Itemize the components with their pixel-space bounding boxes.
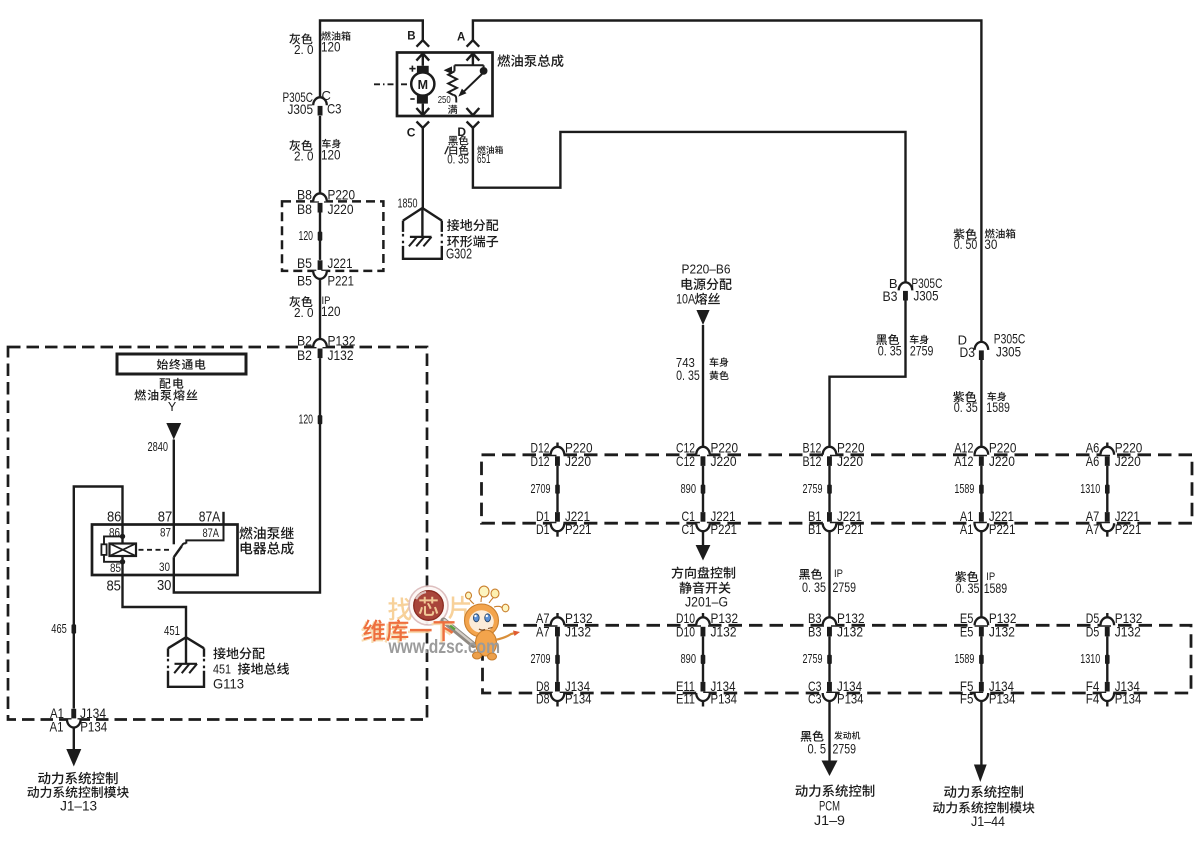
svg-text:87: 87 <box>158 509 173 525</box>
wire W6 connector P221 down to connector B2 P132 <box>319 279 321 339</box>
svg-text:P134: P134 <box>565 691 592 707</box>
ground G302 接地分配 环形端子 <box>398 196 499 262</box>
wire W15 A1 P221 down to E5 P132 <box>980 531 982 617</box>
connector column C12 P220/J220 - C1 J221/P221 <box>676 439 738 537</box>
fuse label 配电 燃油泵熔丝 Y <box>134 378 197 414</box>
wire W14 B1 P221 down to B3 P132 <box>828 531 830 617</box>
label box 始终通电 <box>117 354 246 374</box>
svg-text:M: M <box>418 78 428 92</box>
svg-text:30: 30 <box>984 237 997 252</box>
svg-text:2709: 2709 <box>531 652 551 666</box>
svg-text:J201–G: J201–G <box>685 595 728 610</box>
pump pin A (fork, label, entry arrow) <box>457 31 479 65</box>
svg-text:A1: A1 <box>960 521 974 537</box>
svg-text:J305: J305 <box>288 101 314 117</box>
dashed box P132/J132 - J134/P134 <box>483 625 1192 693</box>
svg-text:P221: P221 <box>837 521 864 537</box>
svg-text:2. 0: 2. 0 <box>294 42 314 57</box>
svg-text:J220: J220 <box>711 453 737 469</box>
svg-text:Y: Y <box>168 400 177 414</box>
svg-text:0. 35: 0. 35 <box>954 400 978 415</box>
svg-text:250: 250 <box>438 94 451 106</box>
arrow to PCM J1-13 (left) <box>27 728 128 814</box>
svg-text:E5: E5 <box>960 623 974 639</box>
wire W16 C3 P134 down to PCM arrow <box>828 701 830 761</box>
svg-text:2759: 2759 <box>833 742 857 757</box>
svg-text:J132: J132 <box>328 347 354 363</box>
connector C3 P305C/J305 (left column) <box>283 88 342 117</box>
fuse output arrow (circuit 2840) <box>148 423 182 454</box>
svg-text:B12: B12 <box>803 453 822 469</box>
svg-text:P134: P134 <box>989 691 1016 707</box>
svg-text:J305: J305 <box>914 287 939 303</box>
wire W17 F5 P134 down to PCM arrow <box>980 701 982 765</box>
svg-text:1850: 1850 <box>398 196 418 210</box>
label 灰色 2.0 车身 120 (wire W1 lower) <box>289 139 341 164</box>
svg-text:IP: IP <box>834 568 843 580</box>
svg-text:C12: C12 <box>676 453 695 469</box>
svg-text:F4: F4 <box>1086 691 1100 707</box>
svg-text:B3: B3 <box>808 623 822 639</box>
svg-text:J1–44: J1–44 <box>971 814 1005 829</box>
svg-text:P221: P221 <box>1115 521 1142 537</box>
svg-text:465: 465 <box>51 622 67 636</box>
svg-text:D1: D1 <box>536 521 550 537</box>
pump pin C (exit arrow, fork, label) <box>407 104 429 140</box>
arrow to PCM J1-9 <box>795 761 874 829</box>
svg-text:2840: 2840 <box>148 440 169 454</box>
svg-text:651: 651 <box>477 152 491 166</box>
connector B5 J221/P221 (left column) <box>297 255 354 288</box>
svg-text:451: 451 <box>213 662 231 677</box>
svg-text:B3: B3 <box>883 288 898 304</box>
svg-text:J1–9: J1–9 <box>814 813 845 828</box>
label 黑色 0.35 车身 2759 (wire W12) <box>876 334 933 358</box>
svg-text:B5: B5 <box>297 255 312 271</box>
svg-text:451: 451 <box>164 624 180 638</box>
arrow to steering wheel controls 方向盘控制 静音开关 J201-G <box>672 531 736 610</box>
svg-text:D8: D8 <box>536 691 550 707</box>
relay pin labels inner 86 87 87A 85 30 <box>109 527 219 575</box>
fuel pump relay box 燃油泵继电器总成 <box>92 525 294 576</box>
svg-text:J132: J132 <box>989 623 1015 639</box>
wire W12 connector J305 jog down-left to connector B12 P220 <box>830 301 906 447</box>
svg-text:B5: B5 <box>297 272 312 288</box>
svg-text:P221: P221 <box>565 521 592 537</box>
svg-text:J220: J220 <box>565 453 591 469</box>
relay coil with parallel resistor <box>101 525 136 576</box>
svg-text:1310: 1310 <box>1080 482 1100 496</box>
relay switch (30 common, 87 NO, 87A NC) <box>139 525 224 576</box>
svg-text:2. 0: 2. 0 <box>294 305 314 320</box>
wire W4 pump pin D staircase to connector B P305C <box>473 128 906 283</box>
svg-text:0. 35: 0. 35 <box>447 151 469 166</box>
svg-text:J220: J220 <box>837 453 863 469</box>
connector column B12 P220/J220 - B1 J221/P221 <box>803 439 865 537</box>
wire W11 fuse 743 down to connector C12 P220 <box>702 325 704 447</box>
svg-text:B8: B8 <box>297 201 312 217</box>
svg-text:C: C <box>407 125 416 139</box>
wire W9 relay pin 86 up-left-down to connector A1 J134 <box>74 487 123 709</box>
svg-text:A12: A12 <box>954 453 973 469</box>
svg-text:0. 5: 0. 5 <box>808 742 827 757</box>
svg-text:2759: 2759 <box>803 482 823 496</box>
svg-text:P134: P134 <box>80 719 107 735</box>
label 黑色 0.35 IP 2759 (wire W14) <box>799 568 856 595</box>
svg-text:B1: B1 <box>808 521 822 537</box>
svg-text:2709: 2709 <box>531 482 551 496</box>
wire W10 relay pin 85 to ground G113 <box>123 575 187 637</box>
svg-text:2759: 2759 <box>803 652 823 666</box>
svg-text:B: B <box>407 31 415 43</box>
svg-text:1589: 1589 <box>954 482 974 496</box>
svg-text:30: 30 <box>157 578 172 594</box>
label 灰色 2.0 IP 120 (wire W6) <box>289 295 340 320</box>
svg-text:86: 86 <box>109 527 120 539</box>
svg-text:10A: 10A <box>676 292 695 307</box>
label 黑色/白色 0.35 燃油箱 651 (wire W4) <box>445 135 503 166</box>
svg-text:0. 50: 0. 50 <box>954 237 978 252</box>
svg-text:120: 120 <box>299 413 314 427</box>
svg-text:J132: J132 <box>837 623 863 639</box>
svg-text:J220: J220 <box>989 453 1015 469</box>
wire W1 from node B2 column to fuel pump pin B (top left) <box>320 21 423 195</box>
svg-text:87A: 87A <box>199 509 221 525</box>
svg-text:D10: D10 <box>676 623 695 639</box>
svg-text:85: 85 <box>110 563 121 575</box>
svg-text:D5: D5 <box>1086 623 1100 639</box>
svg-text:A6: A6 <box>1086 453 1100 469</box>
connector column D12 P220/J220 - D1 J221/P221 <box>531 439 593 537</box>
svg-text:J221: J221 <box>328 255 353 271</box>
connector B2 P132/J132 (on dashed box top edge) <box>297 332 356 363</box>
svg-text:P134: P134 <box>1115 691 1142 707</box>
svg-text:86: 86 <box>107 509 122 525</box>
svg-text:A1: A1 <box>50 719 64 735</box>
svg-text:0. 35: 0. 35 <box>878 343 902 358</box>
svg-text:F5: F5 <box>960 691 974 707</box>
fuel level sender wiper arm (switch) <box>458 67 487 97</box>
connector column D10 P132/J132 - E11 J134/P134 <box>676 610 738 707</box>
svg-text:0. 35: 0. 35 <box>802 580 826 595</box>
svg-text:P221: P221 <box>989 521 1016 537</box>
wire W7 connector J132 down, left to relay pin 30 <box>174 358 320 592</box>
svg-text:1589: 1589 <box>954 652 974 666</box>
svg-text:J132: J132 <box>565 623 591 639</box>
svg-text:2759: 2759 <box>910 343 934 358</box>
svg-text:B2: B2 <box>297 347 312 363</box>
svg-text:P220–B6: P220–B6 <box>682 262 731 277</box>
splice 465 (wire W9) <box>51 622 76 636</box>
label 灰色 2.0 燃油箱 120 (wire W1 upper) <box>289 31 350 57</box>
connector column A6 P220/J220 - A7 J221/P221 <box>1080 439 1142 537</box>
wire W5 inside J220 box <box>319 213 321 260</box>
pump pin B (fork, label, entry arrow) <box>407 31 429 66</box>
svg-text:87A: 87A <box>202 528 219 540</box>
connector column E5 P132/J132 - F5 J134/P134 <box>954 610 1016 707</box>
svg-text:120: 120 <box>321 304 341 319</box>
dashed box around connectors J220/J221 (left) <box>282 201 383 271</box>
connector column D5 P132/J132 - F4 J134/P134 <box>1080 610 1142 707</box>
svg-text:J220: J220 <box>328 201 354 217</box>
svg-text:87: 87 <box>160 528 171 540</box>
svg-text:85: 85 <box>106 579 121 595</box>
svg-text:P221: P221 <box>328 272 355 288</box>
dashed boundary box (left module) <box>8 347 427 720</box>
svg-text:www.dzsc.com: www.dzsc.com <box>388 636 500 658</box>
arrow to PCM J1-44 <box>933 765 1034 829</box>
connector column A7 P132/J132 - D8 J134/P134 <box>531 610 593 707</box>
svg-text:P134: P134 <box>837 691 864 707</box>
fuse P220-B6 电源分配 10A熔丝 <box>676 262 732 325</box>
svg-text:E11: E11 <box>676 691 695 707</box>
label 743 0.35 车身 黄色 (wire W11) <box>676 355 729 383</box>
svg-text:D3: D3 <box>960 344 976 360</box>
svg-text:0. 35: 0. 35 <box>676 368 700 383</box>
fuel pump assembly box 燃油泵总成 <box>397 53 564 117</box>
splice 120 (left column) <box>299 229 323 243</box>
svg-text:J132: J132 <box>711 623 737 639</box>
svg-text:2. 0: 2. 0 <box>294 149 314 164</box>
svg-text:J132: J132 <box>1115 623 1141 639</box>
connector column B3 P132/J132 - C3 J134/P134 <box>803 610 865 707</box>
svg-text:PCM: PCM <box>819 799 840 814</box>
svg-text:J1–13: J1–13 <box>60 798 97 813</box>
svg-text:A7: A7 <box>1086 521 1100 537</box>
dashed box P220/J220 - J221/P221 <box>482 455 1193 523</box>
wire W2 from fuel pump pin A to connector D P305C (top right) <box>473 21 982 342</box>
label 紫色 0.35 车身 1589 (wire W13) <box>953 391 1010 415</box>
svg-text:C1: C1 <box>682 521 696 537</box>
motor M (fuel pump motor with brushes) <box>409 66 434 104</box>
connector B3 P305C/J305 (column 3) <box>883 275 943 304</box>
float arm dash-dot line <box>374 83 411 85</box>
svg-text:0. 35: 0. 35 <box>956 581 980 596</box>
svg-text:C3: C3 <box>808 691 822 707</box>
connector B8 P220/J220 (left column) <box>297 186 355 216</box>
svg-text:A: A <box>457 31 465 43</box>
svg-text:890: 890 <box>681 652 697 666</box>
svg-text:P134: P134 <box>711 691 738 707</box>
svg-text:G113: G113 <box>213 676 244 692</box>
svg-text:1310: 1310 <box>1080 652 1100 666</box>
svg-text:1589: 1589 <box>986 400 1010 415</box>
splice 120 (wire W7) <box>299 413 323 427</box>
relay pin labels outer 86 87 87A 85 30 <box>106 509 220 594</box>
svg-text:A7: A7 <box>536 623 550 639</box>
svg-text:2759: 2759 <box>833 580 857 595</box>
svg-text:J305: J305 <box>996 343 1021 359</box>
svg-text:P221: P221 <box>711 521 738 537</box>
svg-text:J220: J220 <box>1115 453 1141 469</box>
wire W13 connector J305 down to connector A12 P220 <box>980 360 982 447</box>
wire W8 fuse 2840 down to relay pin 87 <box>173 440 175 525</box>
label 紫色 0.35 IP 1589 (wire W15) <box>955 571 1007 596</box>
svg-text:C3: C3 <box>327 100 342 116</box>
connector D3 P305C/J305 (column 4) <box>958 331 1026 360</box>
svg-text:120: 120 <box>299 229 314 243</box>
svg-text:120: 120 <box>321 147 341 162</box>
svg-text:1589: 1589 <box>984 581 1008 596</box>
watermark dzsc.com logo <box>361 586 520 660</box>
ground G113 接地分配 451 接地总线 <box>164 624 289 692</box>
pump pin D (exit arrow, fork, label) <box>457 108 479 139</box>
fuel level sender resistor 250 <box>438 65 484 114</box>
wire W3 pump pin C down to ground G302 <box>422 128 424 208</box>
svg-text:D12: D12 <box>531 453 550 469</box>
relay pin 87A stub <box>222 512 224 525</box>
svg-text:30: 30 <box>159 562 170 574</box>
connector column A12 P220/J220 - A1 J221/P221 <box>954 439 1016 537</box>
label 紫色 0.50 燃油箱 30 (wire W2) <box>954 228 1016 251</box>
svg-text:890: 890 <box>681 482 697 496</box>
label 黑色 0.5 发动机 2759 (wire W16) <box>801 731 861 757</box>
connector A1 J134/P134 (on dashed box bottom edge) <box>50 705 108 735</box>
svg-text:120: 120 <box>321 40 341 55</box>
svg-text:G302: G302 <box>446 247 472 263</box>
